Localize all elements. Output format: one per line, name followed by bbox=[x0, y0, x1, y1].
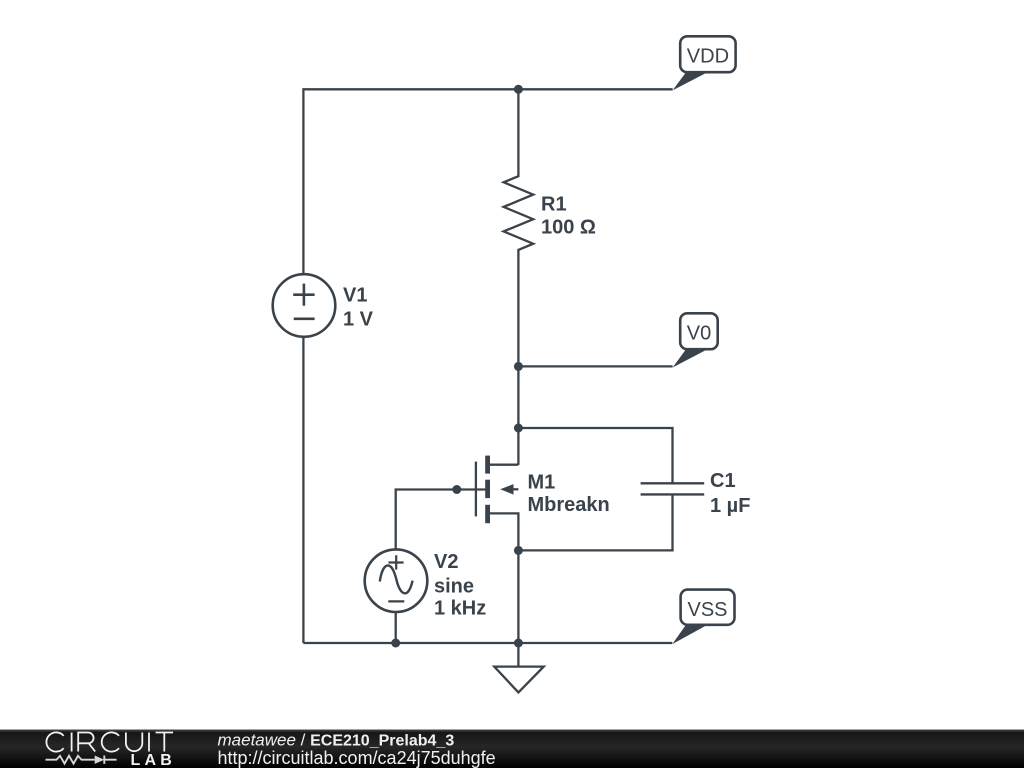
node VDD junction dot bbox=[514, 85, 523, 94]
node source junction dot bbox=[514, 546, 523, 555]
svg-text:VSS: VSS bbox=[687, 599, 727, 621]
svg-text:V1: V1 bbox=[343, 285, 367, 307]
wire V2 bottom stem bbox=[395, 612, 397, 643]
svg-text:1 kHz: 1 kHz bbox=[434, 598, 486, 620]
wire drain column bbox=[517, 366, 519, 465]
voltage source V2 bbox=[365, 549, 428, 612]
svg-text:1 V: 1 V bbox=[343, 309, 374, 331]
wire C1 bottom branch bbox=[518, 494, 672, 550]
flag VSS bbox=[672, 590, 734, 645]
svg-text:maetawee / ECE210_Prelab4_3: maetawee / ECE210_Prelab4_3 bbox=[218, 731, 455, 750]
svg-text:LAB: LAB bbox=[131, 752, 176, 768]
svg-text:1 µF: 1 µF bbox=[710, 495, 750, 517]
wire bottom rail bbox=[303, 642, 672, 644]
node gate junction dot bbox=[452, 485, 461, 494]
wire top rail bbox=[303, 89, 672, 274]
svg-text:C1: C1 bbox=[710, 470, 736, 492]
capacitor C1 bbox=[641, 483, 705, 494]
footer bar bbox=[0, 730, 1024, 768]
ground bbox=[494, 643, 543, 692]
svg-text:100 Ω: 100 Ω bbox=[541, 216, 596, 238]
svg-text:V0: V0 bbox=[687, 323, 711, 345]
flag V0 bbox=[673, 313, 718, 367]
logo resistor-diode glyph bbox=[46, 756, 117, 764]
svg-text:M1: M1 bbox=[528, 472, 556, 494]
svg-text:sine: sine bbox=[434, 576, 474, 598]
flag VDD bbox=[673, 36, 736, 90]
svg-text:V2: V2 bbox=[434, 551, 458, 573]
resistor R1 bbox=[504, 89, 534, 366]
node V0 junction dot bbox=[514, 362, 523, 371]
svg-text:http://circuitlab.com/ca24j75d: http://circuitlab.com/ca24j75duhgfe bbox=[218, 748, 496, 768]
svg-text:R1: R1 bbox=[541, 194, 567, 216]
logo CIRCUIT wordmark bbox=[46, 732, 173, 751]
transistor M1 bbox=[476, 456, 519, 551]
wire gate bbox=[396, 490, 490, 550]
voltage source V1 bbox=[273, 274, 336, 337]
wire V0 bbox=[518, 365, 672, 367]
wire C1 top branch bbox=[518, 428, 672, 483]
node ground junction dot bbox=[514, 639, 523, 648]
svg-text:Mbreakn: Mbreakn bbox=[528, 494, 610, 516]
node drain junction dot bbox=[514, 424, 523, 433]
svg-text:VDD: VDD bbox=[687, 46, 729, 68]
wire V1 bottom stem / left rail bbox=[302, 337, 304, 643]
node V2 bottom junction dot bbox=[391, 639, 400, 648]
wire source column bbox=[517, 550, 519, 643]
